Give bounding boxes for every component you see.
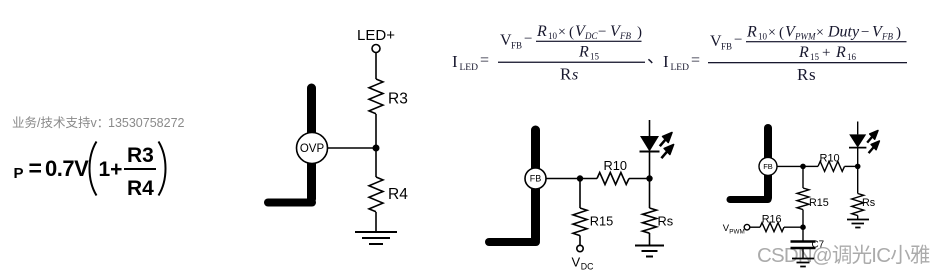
wire LED+ to R3 <box>375 53 377 80</box>
svg-text:15: 15 <box>590 52 600 62</box>
svg-text:I: I <box>663 52 669 71</box>
formula P = 0.7V(1+R3/R4) <box>14 142 166 201</box>
svg-text:×: × <box>768 26 776 41</box>
wire R15 to node3 <box>802 210 804 228</box>
fraction bar <box>124 168 156 170</box>
svg-text:R10: R10 <box>820 153 840 165</box>
svg-text:0.7V: 0.7V <box>45 156 89 181</box>
svg-text:−: − <box>524 31 532 47</box>
svg-text:DC: DC <box>581 262 594 272</box>
svg-text:−: − <box>734 32 742 48</box>
ground Rs <box>847 220 869 228</box>
wire above LED <box>857 122 859 135</box>
resistor Rs <box>852 194 864 216</box>
wire node1 to R10 <box>803 165 818 167</box>
svg-text:DC: DC <box>584 31 598 41</box>
capacitor C7 plate1 <box>791 240 816 242</box>
resistor R3 <box>369 79 383 114</box>
wire C7 to ground <box>802 249 804 258</box>
ground C7 <box>792 259 814 267</box>
svg-text:Rs: Rs <box>862 197 876 209</box>
resistor R4 <box>369 177 383 212</box>
svg-text:R: R <box>798 44 809 61</box>
thick chip wire vertical <box>531 130 540 240</box>
svg-text:R4: R4 <box>127 177 154 200</box>
wire FB to node1 <box>546 178 580 180</box>
svg-text:10: 10 <box>758 32 768 42</box>
svg-text:R15: R15 <box>809 197 829 209</box>
thick chip wire horizontal <box>489 238 536 246</box>
svg-text:LED+: LED+ <box>357 27 395 44</box>
node junction OVP <box>373 145 380 152</box>
svg-text:): ) <box>896 25 901 41</box>
wire R16 to node3 <box>784 226 803 228</box>
svg-text:R: R <box>578 44 589 61</box>
thick chip wire vertical <box>307 88 316 199</box>
main fraction bar <box>498 62 645 63</box>
wire VPWM to R16 <box>750 226 760 228</box>
resistor R10 <box>818 161 845 171</box>
wire node1 down to R15 <box>802 166 804 188</box>
svg-text:R: R <box>536 23 547 40</box>
svg-text:V: V <box>572 255 581 270</box>
svg-text:R15: R15 <box>590 214 613 229</box>
svg-text:R10: R10 <box>604 158 627 173</box>
svg-text:、: 、 <box>647 48 664 67</box>
svg-text:LED: LED <box>671 63 690 73</box>
wire OVP to node <box>327 147 376 149</box>
LED cathode bar <box>849 147 866 149</box>
terminal VDC <box>577 245 583 251</box>
LED light arrow 1 <box>660 133 672 147</box>
resistor R10 <box>597 173 629 185</box>
wire node2 up to LED <box>857 148 859 167</box>
svg-text:−: − <box>598 24 606 40</box>
wire FB to node1 <box>777 165 803 167</box>
svg-text:13530758272: 13530758272 <box>108 116 185 130</box>
wire node2 down to Rs <box>857 166 859 193</box>
svg-text:LED: LED <box>460 63 479 73</box>
capacitor C7 plate2 <box>791 247 816 249</box>
svg-text:1+: 1+ <box>99 158 123 181</box>
svg-text:OVP: OVP <box>300 143 325 155</box>
svg-text:(: ( <box>569 25 574 41</box>
svg-text:R: R <box>835 44 846 61</box>
svg-text:P: P <box>14 165 24 182</box>
node2 junction <box>855 164 861 170</box>
wire R15 to VDC terminal <box>579 236 581 246</box>
main fraction bar <box>708 62 907 63</box>
svg-text:FB: FB <box>721 42 732 52</box>
svg-text:=: = <box>480 52 489 69</box>
node2 junction <box>646 175 652 181</box>
svg-text:R16: R16 <box>762 213 782 225</box>
svg-text:PWM: PWM <box>794 32 816 42</box>
svg-text:): ) <box>637 25 642 41</box>
svg-text:C7: C7 <box>812 240 825 251</box>
LED light arrow 2 <box>661 145 673 159</box>
wire node2 up to LED <box>649 152 651 179</box>
svg-text:Duty: Duty <box>827 24 860 41</box>
inner fraction bar <box>536 41 642 42</box>
terminal LED+ <box>372 45 380 53</box>
thick chip wire horizontal <box>730 196 768 203</box>
inner fraction bar <box>746 41 907 42</box>
wire node2 down to Rs <box>649 179 651 209</box>
resistor R15 <box>573 208 587 236</box>
svg-text:10: 10 <box>548 31 558 41</box>
wire R10 to node2 <box>629 178 650 180</box>
svg-text:FB: FB <box>763 162 773 171</box>
wire R3 to node <box>375 114 377 148</box>
svg-text:R3: R3 <box>127 144 154 167</box>
resistor Rs <box>643 208 657 233</box>
svg-text:FB: FB <box>511 41 522 51</box>
wire R10 to node2 <box>845 165 858 167</box>
svg-text:+: + <box>822 45 830 61</box>
svg-text:s: s <box>809 65 816 84</box>
svg-text:16: 16 <box>847 52 857 62</box>
svg-text:FB: FB <box>619 31 631 41</box>
svg-text:Rs: Rs <box>658 214 674 229</box>
svg-text:FB: FB <box>881 32 893 42</box>
svg-text:R: R <box>797 65 809 84</box>
op circle FB <box>759 157 777 175</box>
node3 junction <box>800 224 806 230</box>
svg-text:×: × <box>816 26 824 41</box>
svg-text:−: − <box>861 25 869 41</box>
wire node1 down to R15 <box>579 179 581 209</box>
wire node to R4 <box>375 148 377 177</box>
svg-text:(: ( <box>779 25 784 41</box>
wire node3 to C7 <box>802 227 804 240</box>
ground <box>355 232 397 244</box>
LED light arrow 1 <box>867 131 878 143</box>
svg-text:I: I <box>452 52 458 71</box>
resistor R15 <box>797 188 809 210</box>
wire Rs to ground <box>649 233 651 246</box>
wire R4 to ground <box>375 212 377 232</box>
ground <box>635 246 664 257</box>
left parenthesis <box>90 142 97 196</box>
svg-text:CSDN@调光IC小雅: CSDN@调光IC小雅 <box>757 244 930 267</box>
svg-text:R4: R4 <box>388 186 408 203</box>
thick chip wire vertical <box>764 128 772 198</box>
wire above LED <box>649 120 651 136</box>
LED diode triangle <box>849 134 866 147</box>
thick chip wire horizontal <box>268 199 312 207</box>
svg-text:=: = <box>29 155 42 181</box>
svg-text:FB: FB <box>530 174 542 184</box>
svg-text:R: R <box>746 24 757 41</box>
LED light arrow 2 <box>869 141 880 153</box>
svg-text:s: s <box>572 67 578 84</box>
resistor R16 <box>760 223 784 232</box>
node1 junction <box>800 164 806 170</box>
op circle OVP <box>297 133 328 164</box>
svg-text:15: 15 <box>810 52 820 62</box>
svg-text:业务/技术支持v：: 业务/技术支持v： <box>12 115 109 130</box>
op circle FB <box>525 168 546 189</box>
svg-text:×: × <box>558 25 566 40</box>
wire node1 to R10 <box>580 178 597 180</box>
LED cathode bar <box>640 151 660 153</box>
svg-text:R: R <box>560 65 572 84</box>
node1 junction <box>577 175 583 181</box>
right parenthesis <box>159 142 166 196</box>
wire Rs to ground <box>857 216 859 220</box>
svg-text:=: = <box>691 52 700 69</box>
svg-text:PWM: PWM <box>729 228 744 235</box>
terminal VPWM <box>744 224 750 230</box>
LED diode triangle <box>640 136 659 152</box>
svg-text:R3: R3 <box>388 91 408 108</box>
